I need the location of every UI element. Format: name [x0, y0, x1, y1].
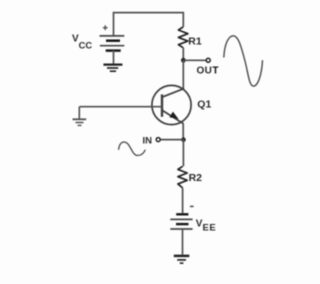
- wire: OUT junction to collector: [182, 60, 184, 89]
- wire: junction to OUT terminal: [183, 59, 206, 61]
- wire: base to left ground: [79, 106, 162, 108]
- base bar: [161, 94, 163, 116]
- terminal IN (open circle): [156, 138, 160, 142]
- node: OUT junction dot: [181, 58, 186, 63]
- wire: R1 bottom to OUT junction: [182, 48, 184, 61]
- resistor R1: [178, 27, 188, 48]
- wire: VCC negative to ground: [113, 51, 115, 64]
- svg-text:IN: IN: [143, 135, 153, 146]
- emitter arrow: [169, 112, 178, 120]
- transistor Q1: [152, 85, 191, 124]
- node: IN junction dot: [181, 137, 186, 142]
- battery VEE: [170, 214, 192, 229]
- collector lead: [162, 88, 184, 97]
- waveform: input sine: [119, 142, 146, 156]
- terminal OUT (open circle): [206, 58, 210, 62]
- wire: IN junction to R2: [182, 140, 184, 167]
- label: - (VEE negative terminal): [190, 205, 194, 207]
- ground (bottom): [174, 256, 190, 263]
- resistor R2: [178, 166, 187, 188]
- battery VCC: [100, 36, 125, 51]
- svg-text:OUT: OUT: [197, 66, 219, 77]
- svg-text:R2: R2: [189, 172, 203, 184]
- wire: IN terminal to junction: [160, 139, 183, 141]
- wire: emitter to IN junction: [182, 124, 184, 140]
- wire: VEE to bottom ground: [182, 229, 184, 255]
- ground (below VCC): [103, 65, 122, 72]
- wire: R2 to VEE battery: [182, 188, 184, 213]
- body circle: [152, 85, 191, 124]
- ground (base, left): [73, 107, 87, 126]
- wire: top rail from VCC battery to R1: [114, 13, 184, 36]
- emitter lead: [162, 110, 184, 124]
- label: + (VCC positive terminal): [103, 25, 108, 30]
- svg-text:R1: R1: [188, 35, 202, 47]
- waveform: output sine: [224, 36, 263, 86]
- svg-text:Q1: Q1: [197, 98, 211, 110]
